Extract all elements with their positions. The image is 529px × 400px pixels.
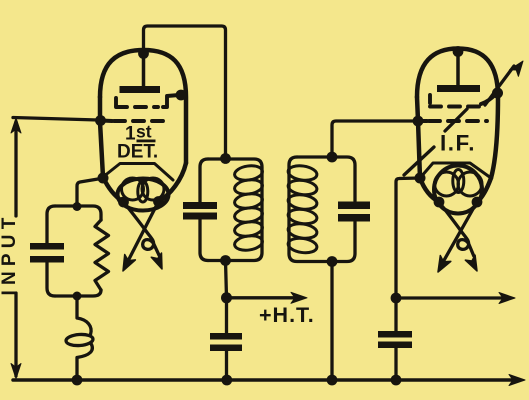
wire V2 cathode left and down — [396, 178, 420, 298]
wire top: plate of V1 to top of box1 — [144, 26, 226, 157]
node grid-cap V1 right — [176, 90, 187, 101]
node envelope right V2 — [492, 88, 503, 99]
node cathode V2 lower-left — [415, 173, 426, 184]
node plate-top V1 — [138, 48, 149, 59]
node tank bottom — [73, 292, 82, 301]
node tank top — [73, 202, 82, 211]
wire bypass cap to bus — [225, 351, 228, 380]
svg-text:INPUT: INPUT — [0, 213, 20, 296]
wire box2 bottom to bus — [330, 262, 333, 381]
label I.F. — [440, 131, 476, 156]
wire HT node down to bypass cap — [225, 298, 228, 333]
variable arrow through V2 — [404, 61, 523, 175]
resistor R1 zigzag — [95, 220, 109, 290]
svg-text:I.F.: I.F. — [440, 131, 476, 156]
ground bus — [13, 375, 525, 386]
node box1 bottom — [220, 255, 231, 266]
filament bulb V2 — [434, 166, 482, 214]
label INPUT — [0, 213, 20, 296]
grid row2 V2 — [418, 119, 487, 123]
node cathode V1 lower-left — [98, 173, 109, 184]
node bus at C5 — [391, 375, 402, 386]
filament leads V2 crossed with arrows — [438, 202, 477, 272]
svg-text:st: st — [136, 122, 152, 142]
label DET. — [117, 142, 158, 163]
tank box L1/C1/R1 — [47, 206, 101, 296]
filament leads V1 crossed with arrows — [123, 202, 162, 272]
grid row1 V2 — [430, 94, 496, 107]
bottom corners — [420, 178, 439, 202]
label 1st — [125, 122, 156, 145]
node output junction — [391, 293, 402, 304]
coupling coil L0 below tank — [66, 296, 94, 380]
bottom corners — [103, 177, 124, 202]
node box1 top — [220, 153, 231, 164]
node filament V1 left — [118, 197, 129, 208]
capacitor C2 plates — [183, 202, 217, 220]
capacitor C3 plates — [338, 202, 370, 222]
wire box2 top to V2 grid — [332, 121, 416, 157]
input dimension arrow line — [11, 118, 21, 379]
filament bulb V1 — [118, 179, 169, 211]
capacitor C1 plates — [30, 243, 64, 263]
node bus at C4 — [221, 375, 232, 386]
op tube V1 envelope — [100, 50, 186, 202]
svg-text:+H.T.: +H.T. — [259, 303, 315, 327]
HT arrow — [227, 292, 308, 303]
IF transformer secondary box T1b — [289, 157, 355, 262]
IF transformer primary box T1a — [200, 159, 262, 261]
node plate-top V2 — [453, 46, 464, 57]
node grid V2 left — [413, 116, 424, 127]
capacitor C4 plates — [210, 333, 242, 351]
node bus at coupling coil — [72, 375, 83, 386]
node box2 top — [327, 152, 338, 163]
label +H.T. — [259, 303, 315, 327]
node bus at box2 — [327, 375, 338, 386]
node box2 bottom — [327, 256, 338, 267]
coil L3 loops — [287, 164, 318, 254]
coil L2 loops — [234, 164, 264, 252]
anode plate V1 — [120, 55, 161, 93]
node filament V2 left — [434, 197, 445, 208]
shoulder — [103, 164, 173, 181]
svg-text:DET.: DET. — [117, 142, 158, 163]
shoulder — [420, 163, 491, 178]
grid row1 V1 — [116, 95, 179, 107]
wire output node to C5 — [394, 298, 397, 331]
grid row2 V1 — [101, 119, 170, 123]
node filament V1 right — [153, 196, 164, 207]
node filament V2 right — [472, 197, 483, 208]
wire C5 to bus — [394, 348, 397, 380]
node grid V1 left — [95, 115, 106, 126]
input wire — [13, 118, 98, 121]
wire box1 bottom to HT node — [226, 261, 227, 298]
filament pretzel V2 — [435, 170, 483, 197]
node HT junction — [221, 292, 232, 303]
filament pretzel V1 — [122, 178, 165, 202]
op tube V2 envelope — [417, 49, 498, 203]
wire V1 cathode to tank top — [77, 179, 101, 206]
output arrow — [396, 293, 515, 304]
capacitor C5 plates — [378, 331, 412, 348]
anode plate V2 — [437, 51, 480, 92]
